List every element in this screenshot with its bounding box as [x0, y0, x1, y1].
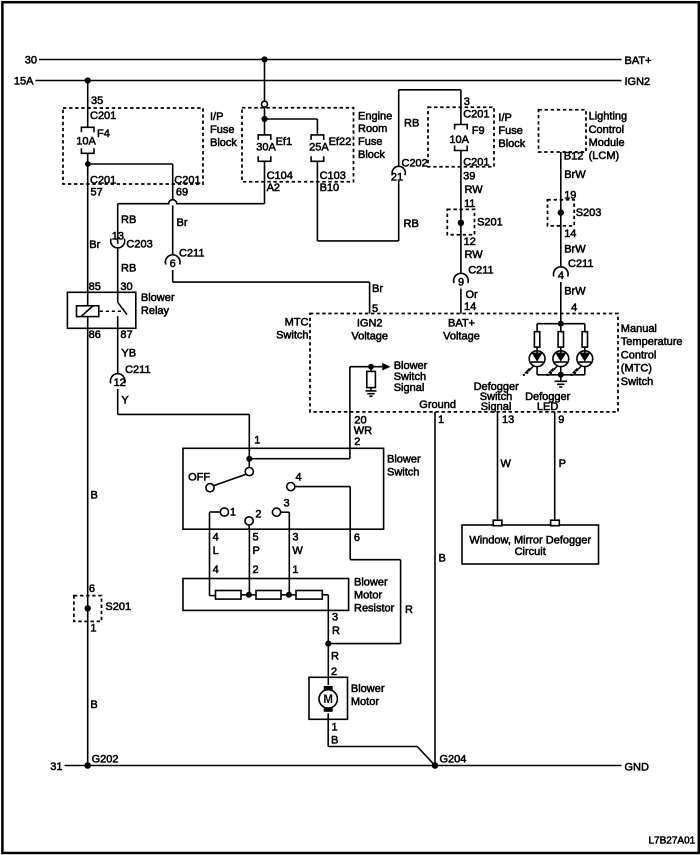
- svg-text:57: 57: [91, 187, 103, 199]
- svg-text:6: 6: [354, 532, 360, 544]
- wire B relay pin 86 down to splice S201 and G202: [87, 317, 89, 766]
- svg-text:69: 69: [176, 186, 188, 198]
- svg-text:R: R: [332, 625, 340, 637]
- svg-text:C201: C201: [463, 157, 489, 169]
- resistor element 2: [256, 591, 281, 600]
- svg-text:Fuse: Fuse: [210, 124, 234, 136]
- svg-text:L: L: [213, 545, 219, 557]
- svg-text:30: 30: [25, 55, 37, 67]
- svg-text:Br: Br: [372, 283, 383, 295]
- svg-text:Or: Or: [466, 289, 479, 301]
- svg-text:G202: G202: [92, 754, 119, 766]
- relay: Blower Relay: [67, 292, 135, 328]
- svg-text:B: B: [91, 490, 98, 502]
- svg-text:3: 3: [464, 96, 470, 108]
- svg-text:4: 4: [296, 472, 302, 484]
- svg-text:F4: F4: [97, 128, 110, 140]
- svg-text:C103: C103: [320, 170, 346, 182]
- svg-text:13: 13: [112, 230, 124, 242]
- svg-text:2: 2: [331, 666, 337, 678]
- svg-text:9: 9: [558, 414, 564, 426]
- svg-text:15A: 15A: [14, 76, 34, 88]
- wire Ef22 B10 down and right to C202: [316, 161, 318, 241]
- svg-text:Ef22: Ef22: [329, 136, 352, 148]
- relay coil: [77, 306, 99, 317]
- svg-text:C201: C201: [174, 175, 200, 187]
- connector C211 pin 9: [454, 273, 469, 283]
- svg-text:3: 3: [292, 532, 298, 544]
- svg-text:14: 14: [464, 301, 476, 313]
- svg-text:3: 3: [332, 612, 338, 624]
- wire W pin 13 to defogger circuit: [497, 412, 499, 520]
- Blower Switch Signal output with pull resistor: [350, 366, 382, 368]
- connector C211 pin 12: [110, 374, 125, 384]
- resistor link junction 1: [241, 594, 256, 596]
- net GND rail: [65, 765, 622, 767]
- wire RW pin39 down through splice S201: [460, 151, 462, 274]
- svg-text:RB: RB: [404, 218, 419, 230]
- wire P pin 9 to defogger circuit: [554, 412, 556, 520]
- wire IGN2 rail to fuse F4, pin 35 C201: [87, 81, 89, 128]
- connector C211 pin 4: [554, 267, 569, 277]
- svg-text:Window, Mirror Defogger: Window, Mirror Defogger: [469, 535, 591, 547]
- wire WR pin 20 to blower switch: [349, 412, 351, 459]
- svg-text:BAT+: BAT+: [625, 55, 652, 67]
- svg-text:Resistor: Resistor: [354, 603, 395, 615]
- wire R to blower motor pin 2: [327, 644, 329, 685]
- wire W pin 3: [288, 529, 290, 595]
- svg-text:2: 2: [354, 436, 360, 448]
- svg-text:Ground: Ground: [419, 399, 456, 411]
- svg-text:Engine: Engine: [358, 110, 392, 122]
- svg-text:Lighting: Lighting: [589, 111, 628, 123]
- I/P Fuse Block (right): [428, 107, 494, 167]
- svg-text:4: 4: [558, 270, 564, 282]
- wire F4 output junction: [87, 153, 89, 164]
- I/P Fuse Block (left): [63, 108, 203, 184]
- svg-text:Signal: Signal: [394, 382, 425, 394]
- svg-text:B10: B10: [320, 182, 340, 194]
- svg-text:C202: C202: [402, 158, 428, 170]
- wire RB horizontal with hop over Br wire: [118, 200, 265, 204]
- ground symbol in MTC switch: [560, 375, 562, 381]
- svg-text:C203: C203: [126, 239, 152, 251]
- svg-text:14: 14: [564, 228, 576, 240]
- svg-text:13: 13: [502, 414, 514, 426]
- svg-text:Manual: Manual: [621, 323, 657, 335]
- junction on rail 30: [261, 56, 267, 62]
- svg-text:Voltage: Voltage: [351, 330, 388, 342]
- junction on rail IGN2: [85, 77, 91, 83]
- svg-text:87: 87: [120, 329, 132, 341]
- wire B pin 1 ground to G204: [434, 412, 436, 766]
- svg-text:RW: RW: [465, 184, 484, 196]
- svg-text:Room: Room: [358, 123, 387, 135]
- svg-text:BrW: BrW: [564, 243, 586, 255]
- svg-text:10A: 10A: [76, 135, 96, 147]
- svg-text:1: 1: [332, 721, 338, 733]
- svg-text:Br: Br: [177, 217, 188, 229]
- svg-text:C211: C211: [179, 248, 204, 260]
- wire to pin 69: [88, 163, 173, 165]
- splice S201 (right): [447, 209, 474, 234]
- wire Y from C211-12 to blower switch pin 1: [117, 389, 119, 414]
- svg-text:30A: 30A: [256, 142, 276, 154]
- svg-text:IGN2: IGN2: [357, 317, 383, 329]
- LED bottom rail and junction: [537, 374, 585, 376]
- ground G202: [84, 762, 91, 769]
- svg-text:C211: C211: [468, 265, 493, 277]
- wire Br pin57 down to relay coil pin 85: [87, 164, 89, 306]
- fuse F4 10A: [81, 127, 94, 132]
- svg-text:Block: Block: [498, 138, 525, 150]
- svg-text:P: P: [559, 458, 566, 470]
- wire P pin 5: [248, 529, 250, 595]
- svg-text:1: 1: [254, 435, 260, 447]
- svg-text:12: 12: [114, 377, 126, 389]
- motor M1 Blower Motor: [309, 677, 348, 719]
- Blower Switch box: [183, 448, 384, 529]
- svg-text:Voltage: Voltage: [443, 330, 480, 342]
- svg-text:86: 86: [89, 329, 101, 341]
- svg-text:1: 1: [230, 507, 236, 519]
- svg-text:MTC: MTC: [285, 317, 309, 329]
- junction to Ef22 branch: [261, 116, 267, 122]
- svg-text:Temperature: Temperature: [621, 336, 683, 348]
- svg-text:35: 35: [91, 95, 103, 107]
- resistor element 3: [296, 591, 322, 600]
- svg-text:Control: Control: [621, 349, 656, 361]
- svg-text:2: 2: [255, 508, 261, 520]
- LED branch resistors: [536, 324, 538, 332]
- svg-text:Ef1: Ef1: [276, 136, 293, 148]
- relay coil-contact dashed link: [100, 310, 123, 312]
- svg-text:RB: RB: [121, 263, 136, 275]
- connector C202 pin 21: [392, 166, 405, 175]
- svg-text:L7B27A01: L7B27A01: [649, 836, 696, 847]
- svg-text:Blower: Blower: [387, 454, 421, 466]
- splice S203: [548, 200, 575, 226]
- fuse Ef1 30A: [258, 135, 271, 140]
- wire Br from pin 69 to connector C211: [172, 205, 174, 254]
- contact 4: [287, 483, 295, 491]
- svg-text:85: 85: [89, 281, 101, 293]
- wire YB relay pin 87 to connector C211: [117, 328, 119, 373]
- svg-text:I/P: I/P: [498, 112, 511, 124]
- svg-text:Circuit: Circuit: [515, 546, 546, 558]
- svg-text:Blower: Blower: [141, 292, 175, 304]
- svg-text:C201: C201: [90, 110, 116, 122]
- svg-text:F9: F9: [472, 125, 485, 137]
- ground G204: [432, 762, 439, 769]
- svg-text:Switch: Switch: [621, 376, 653, 388]
- svg-text:M: M: [323, 694, 333, 706]
- svg-text:Relay: Relay: [141, 305, 170, 317]
- wire Or from C211-9 to MTC pin 14: [460, 289, 462, 314]
- svg-text:P: P: [253, 545, 260, 557]
- svg-text:31: 31: [50, 761, 62, 773]
- resistor output wire: [322, 594, 328, 596]
- svg-text:Fuse: Fuse: [358, 136, 382, 148]
- svg-text:W: W: [501, 458, 512, 470]
- fuse F9 10A: [455, 125, 468, 130]
- svg-text:6: 6: [89, 583, 95, 595]
- wire RB from C203 to relay pin 30: [117, 248, 119, 292]
- contact 1: [220, 508, 228, 516]
- svg-text:OFF: OFF: [188, 472, 210, 484]
- svg-text:3: 3: [284, 498, 290, 510]
- LED at x=584.8: [577, 351, 593, 367]
- svg-text:LED: LED: [537, 401, 558, 413]
- Window, Mirror Defogger Circuit box: [462, 525, 599, 564]
- svg-text:Fuse: Fuse: [498, 125, 522, 137]
- connector C203 pin 13: [111, 239, 125, 248]
- svg-text:Motor: Motor: [351, 696, 379, 708]
- svg-text:21: 21: [391, 171, 403, 183]
- svg-text:C104: C104: [267, 170, 293, 182]
- wire rail30 down to Engine Room Fuse Block: [264, 60, 266, 102]
- svg-text:A2: A2: [267, 182, 280, 194]
- svg-text:Module: Module: [589, 137, 625, 149]
- svg-text:Signal: Signal: [481, 401, 512, 413]
- svg-text:1: 1: [438, 414, 444, 426]
- switch pivot contact: [245, 468, 253, 476]
- Lighting Control Module (LCM): [539, 110, 587, 152]
- svg-text:G204: G204: [440, 754, 467, 766]
- svg-text:RB: RB: [404, 118, 419, 130]
- svg-text:R: R: [405, 604, 413, 616]
- wire R pin 6 high speed: [349, 529, 351, 560]
- svg-text:C211: C211: [125, 364, 150, 376]
- svg-text:Blower: Blower: [351, 683, 385, 695]
- Manual Temperature Control (MTC) Switch box: [310, 314, 618, 412]
- contact 3: [272, 508, 280, 516]
- svg-text:Switch: Switch: [387, 467, 419, 479]
- svg-text:S203: S203: [576, 207, 602, 219]
- svg-text:4: 4: [213, 564, 219, 576]
- svg-text:1: 1: [90, 623, 96, 635]
- svg-text:4: 4: [571, 302, 577, 314]
- wire BrW from LCM pin B12 through splice S203: [560, 152, 562, 267]
- svg-text:5: 5: [253, 532, 259, 544]
- svg-text:Block: Block: [210, 137, 237, 149]
- Engine Room Fuse Block box: [242, 108, 354, 182]
- svg-text:9: 9: [458, 276, 464, 288]
- ring terminal at fuse block entry: [262, 101, 268, 107]
- svg-text:YB: YB: [121, 348, 136, 360]
- wire L pin 4: [209, 529, 211, 595]
- svg-text:39: 39: [463, 170, 475, 182]
- wire RB down to connector C203: [117, 204, 119, 244]
- svg-text:30: 30: [120, 281, 132, 293]
- svg-text:C201: C201: [90, 175, 116, 187]
- wire pin 20 inside MTC: [349, 367, 351, 412]
- junction resistor output with pin6 wire: [325, 641, 331, 647]
- svg-text:Motor: Motor: [354, 590, 382, 602]
- Blower Motor Resistor box: [183, 579, 349, 611]
- svg-text:B: B: [90, 699, 97, 711]
- connector C211 pin 6: [165, 255, 180, 265]
- svg-text:S201: S201: [105, 601, 131, 613]
- svg-text:Blower: Blower: [354, 577, 388, 589]
- svg-text:BAT+: BAT+: [448, 317, 475, 329]
- svg-text:B: B: [439, 553, 446, 565]
- svg-text:RW: RW: [465, 249, 484, 261]
- svg-text:C211: C211: [568, 258, 593, 270]
- LED at x=537.1: [529, 351, 545, 367]
- relay switch arm (pin 30 to 87, open): [117, 292, 119, 302]
- svg-text:IGN2: IGN2: [625, 76, 651, 88]
- feed junction and wire to pivot: [249, 458, 350, 460]
- svg-text:BrW: BrW: [564, 169, 586, 181]
- svg-text:2: 2: [253, 564, 259, 576]
- resistor link junction 2: [281, 594, 296, 596]
- net IGN2 rail 15A: [36, 80, 622, 82]
- net BAT+ rail 30: [39, 59, 622, 61]
- svg-text:Y: Y: [121, 395, 129, 407]
- LED at x=560.8: [553, 351, 569, 367]
- svg-text:GND: GND: [625, 761, 650, 773]
- defogger LED array feed junction: [558, 321, 564, 327]
- svg-text:B12: B12: [564, 151, 584, 163]
- wire Ef1 A2 down to RB horizontal: [264, 161, 266, 203]
- svg-text:RB: RB: [121, 214, 136, 226]
- svg-text:(LCM): (LCM): [589, 150, 620, 162]
- svg-text:S201: S201: [477, 217, 503, 229]
- wire Br from C211-6 to MTC switch pin 5: [172, 270, 174, 282]
- svg-text:(MTC): (MTC): [621, 363, 652, 375]
- OFF contact and arm: [206, 484, 214, 492]
- svg-text:Br: Br: [89, 239, 100, 251]
- resistor element 1: [210, 595, 216, 597]
- splice S201 (left): [74, 596, 102, 622]
- svg-text:Switch: Switch: [276, 330, 308, 342]
- wire RB from C202 up over to I/P fuse block pin 3: [398, 90, 400, 167]
- svg-text:R: R: [331, 650, 339, 662]
- svg-text:BrW: BrW: [564, 286, 586, 298]
- svg-text:B: B: [331, 734, 338, 746]
- svg-text:4: 4: [213, 532, 219, 544]
- wire BrW from C211-4 to MTC pin 4: [560, 282, 562, 324]
- svg-text:I/P: I/P: [210, 111, 223, 123]
- contact 2: [245, 517, 253, 525]
- svg-text:10A: 10A: [449, 134, 469, 146]
- wire B motor pin 1 to G204: [327, 713, 329, 746]
- svg-text:1: 1: [292, 564, 298, 576]
- svg-text:12: 12: [464, 236, 476, 248]
- fuse Ef22 25A: [311, 135, 324, 140]
- svg-text:11: 11: [464, 198, 475, 210]
- svg-text:C201: C201: [463, 109, 489, 121]
- svg-text:Control: Control: [589, 124, 624, 136]
- svg-text:25A: 25A: [309, 142, 329, 154]
- svg-text:W: W: [292, 545, 303, 557]
- svg-text:6: 6: [170, 258, 176, 270]
- svg-text:Block: Block: [358, 149, 385, 161]
